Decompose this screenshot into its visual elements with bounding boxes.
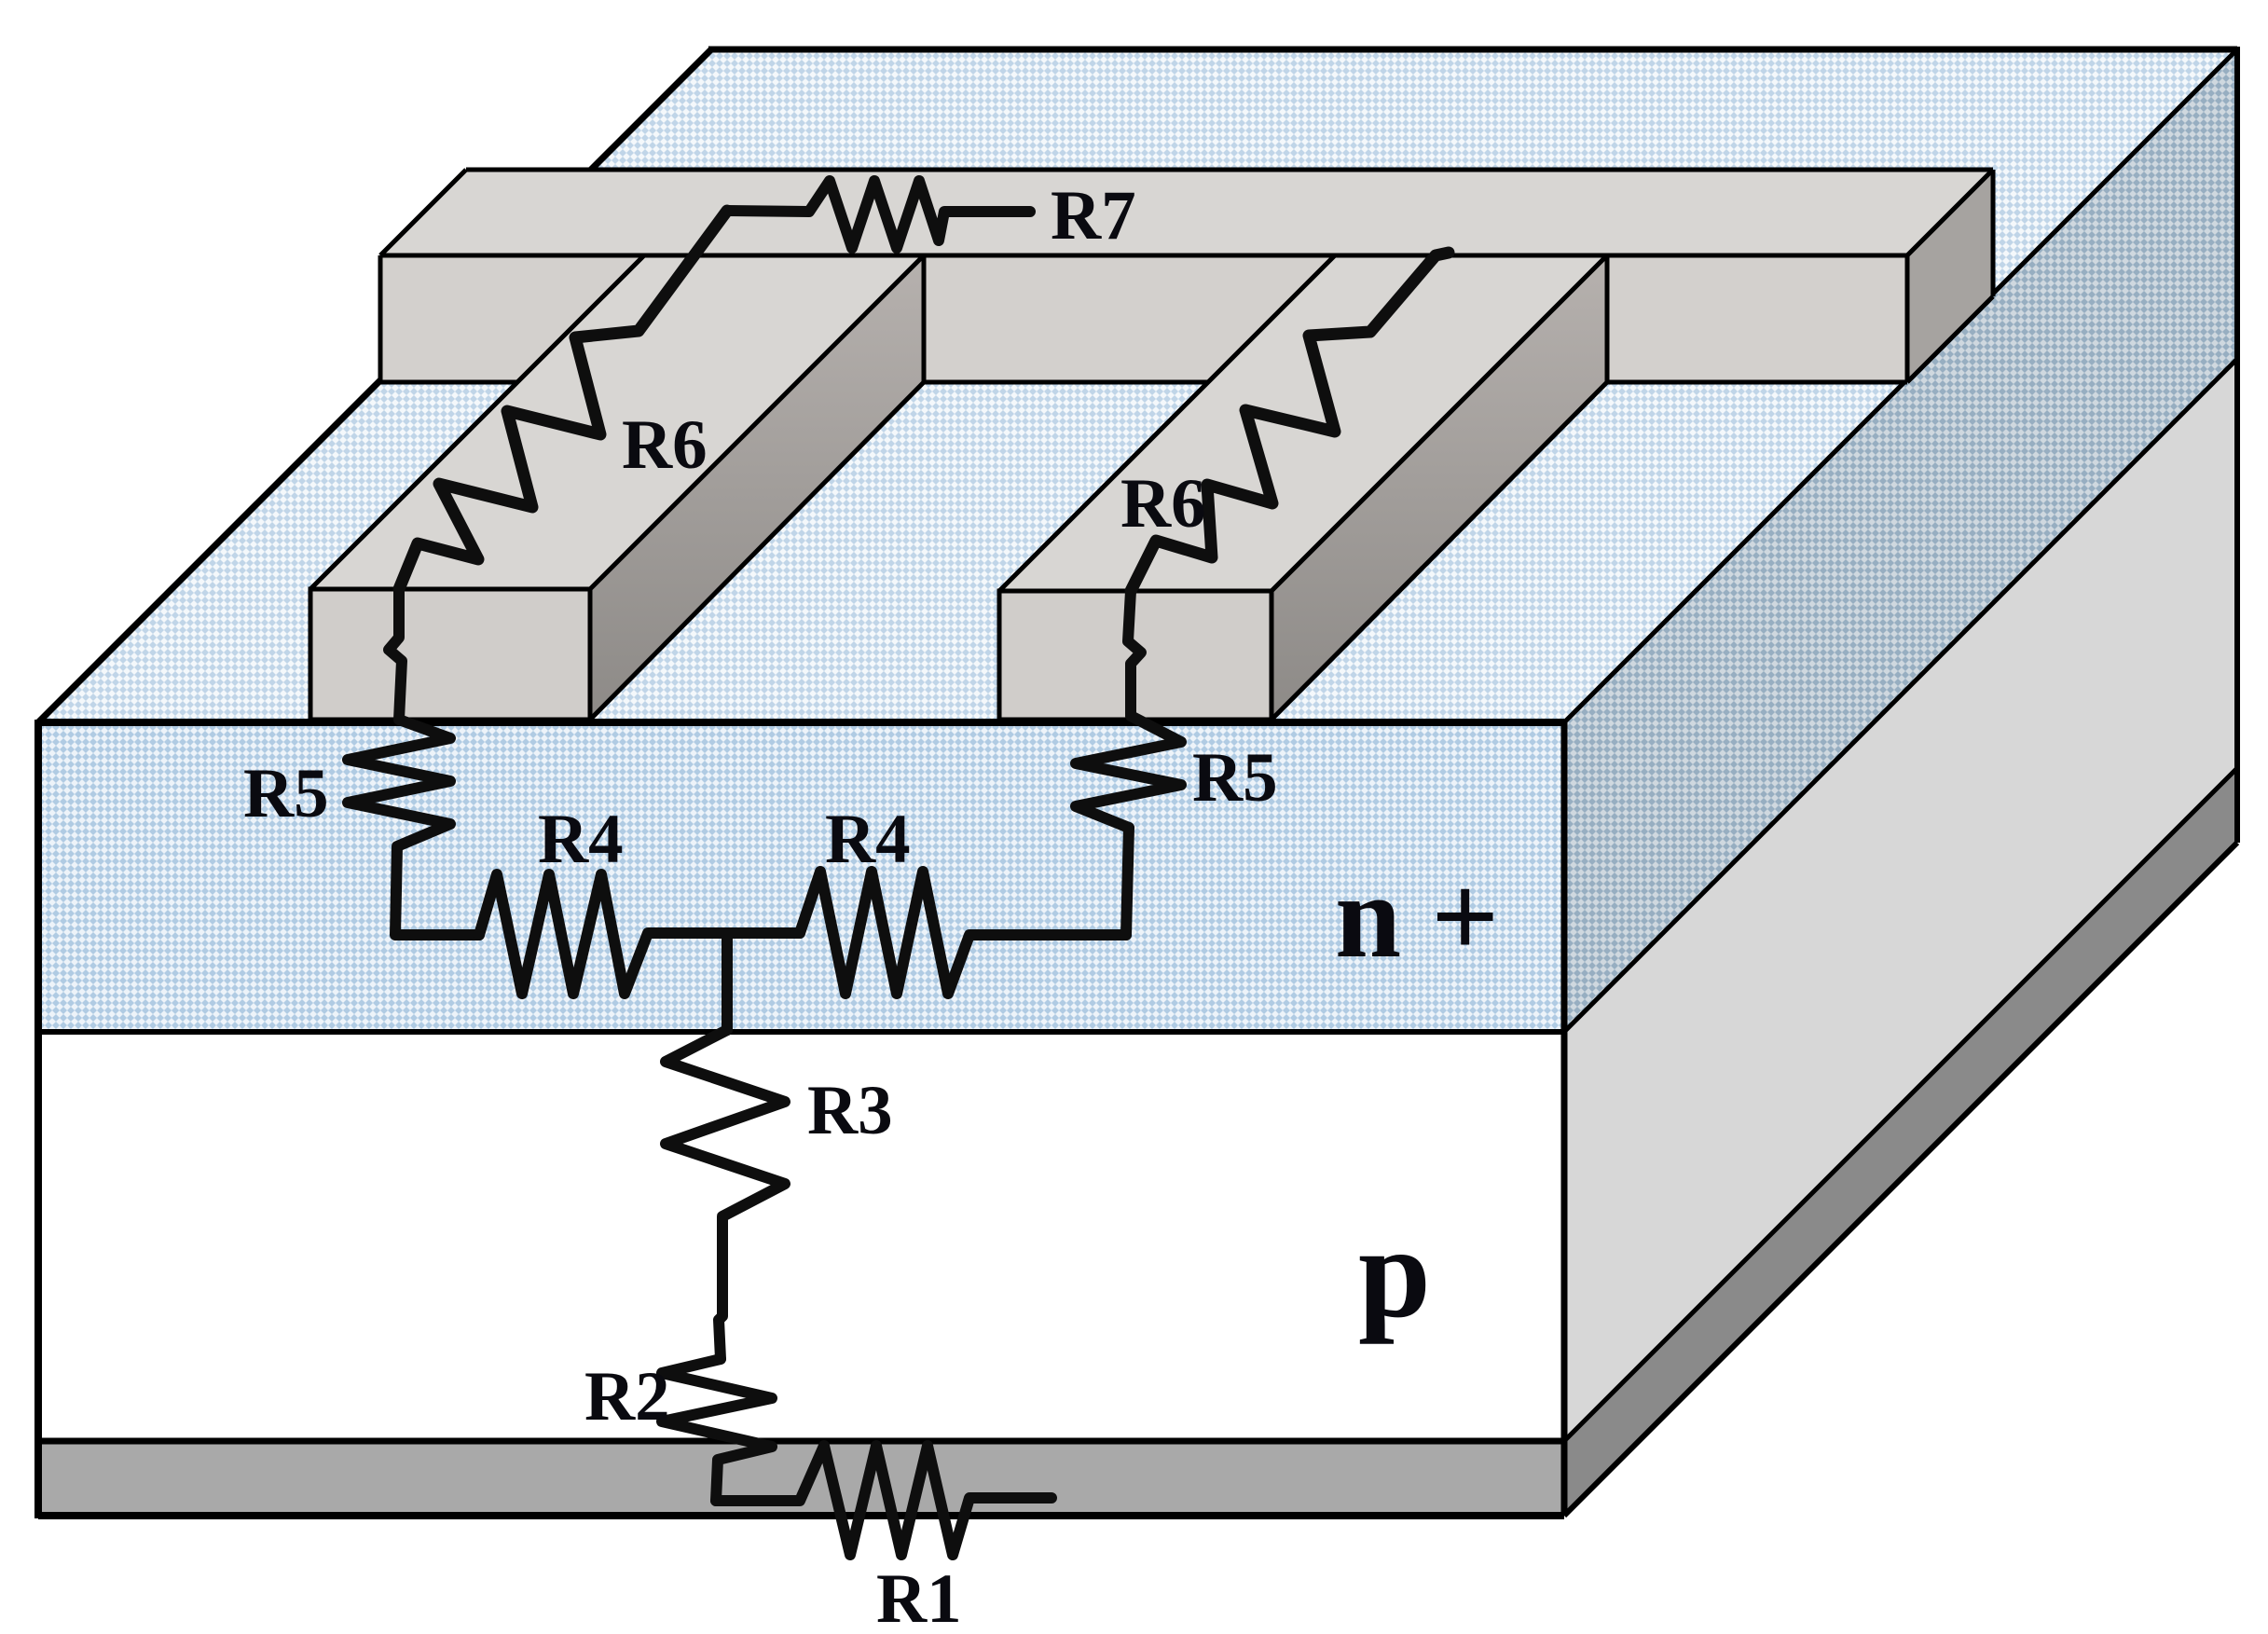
block edge: n+/p front boundary	[38, 1029, 1564, 1035]
block edge: front top	[38, 719, 1564, 726]
n+ layer top face	[38, 49, 2237, 722]
right finger top face	[999, 255, 1607, 591]
busbar right end face	[1907, 170, 1993, 382]
metal contact front face	[38, 1441, 1564, 1516]
right finger right side face	[1271, 255, 1607, 720]
block edge: front left vertical	[34, 720, 42, 1518]
wire down left finger front face	[389, 589, 402, 720]
n+ layer front face	[38, 722, 1564, 1032]
block edge: front bottom	[38, 1512, 1564, 1519]
busbar front-top edge	[380, 254, 1907, 258]
svg-text:R3: R3	[807, 1072, 893, 1149]
resistor R2 (p to back contact)	[662, 1359, 772, 1501]
svg-text:R5: R5	[243, 755, 329, 832]
resistor R7 with leads on busbar	[727, 181, 1030, 248]
p layer front face	[38, 1032, 1564, 1441]
block edge: back right vertical	[2234, 47, 2240, 843]
n+ layer right side face	[1564, 49, 2237, 1032]
svg-text:R4: R4	[825, 801, 911, 878]
block edge: top-right fold	[1564, 49, 2237, 722]
block edge: p/metal front boundary	[38, 1438, 1564, 1445]
resistor R6 left (zigzag on left finger)	[399, 211, 727, 589]
resistor R4 right (lateral n+ resistance)	[800, 872, 1126, 994]
resistor R5 right (finger to n+)	[1076, 716, 1181, 828]
left finger front face	[310, 589, 590, 720]
busbar top face	[380, 170, 1993, 255]
block edge: back top	[708, 47, 2237, 53]
resistor R1 (back metal resistance) with leads	[716, 1446, 1052, 1555]
resistor R4 left (lateral n+ resistance)	[479, 874, 800, 994]
wire up right finger front face	[1128, 591, 1141, 714]
svg-text:R7: R7	[1051, 177, 1136, 254]
busbar front face	[380, 255, 1907, 382]
wire up to right R5	[1126, 828, 1129, 935]
svg-text:R2: R2	[584, 1358, 670, 1435]
block edge: p/metal side diagonal	[1564, 768, 2237, 1441]
svg-text:R6: R6	[1120, 465, 1206, 542]
left finger outline	[310, 255, 924, 720]
busbar outline	[380, 170, 1993, 382]
left finger top face	[310, 255, 924, 589]
resistor R6 right (zigzag on right finger)	[1131, 253, 1449, 591]
svg-text:R1: R1	[876, 1560, 962, 1634]
left finger right side face	[590, 255, 924, 720]
right finger outline	[999, 255, 1607, 720]
svg-text:R6: R6	[622, 406, 708, 484]
node: R4/R3 junction wire	[722, 933, 733, 1030]
svg-text:R4: R4	[538, 801, 624, 878]
svg-text:n +: n +	[1335, 850, 1499, 982]
svg-text:R5: R5	[1192, 739, 1278, 817]
block edge: bottom-right diagonal	[1564, 843, 2237, 1516]
block edge: front right vertical	[1561, 722, 1568, 1516]
metal contact right side face	[1564, 768, 2237, 1516]
svg-text:p: p	[1358, 1201, 1431, 1345]
block edge: top-left diagonal	[38, 49, 711, 722]
right finger front face	[999, 591, 1271, 720]
block edge: n+/p side diagonal	[1564, 359, 2237, 1032]
p layer right side face	[1564, 359, 2237, 1441]
resistor R5 left (finger to n+)	[348, 720, 479, 935]
resistor R3 (vertical p-base resistance)	[666, 1030, 785, 1359]
